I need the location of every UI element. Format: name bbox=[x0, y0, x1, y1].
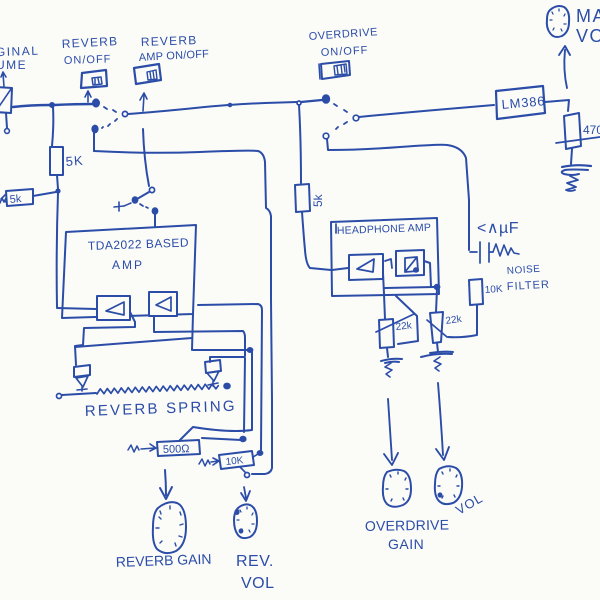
resistor 5K (vertical) bbox=[50, 147, 63, 175]
wire 500ohm column down bbox=[180, 352, 252, 440]
op-amp A (inside TDA box) bbox=[97, 296, 130, 320]
svg-text:GINAL: GINAL bbox=[0, 44, 40, 60]
switch SW3 common (open circle) bbox=[353, 115, 359, 121]
switch SW1 common (open circle) bbox=[122, 111, 127, 116]
wire SW2 to TDA amp top bbox=[154, 214, 156, 227]
node C junction circle bbox=[297, 101, 301, 105]
resistor 5K (overdrive input) bbox=[295, 184, 310, 212]
svg-text:REVERB GAIN: REVERB GAIN bbox=[116, 551, 212, 570]
switch box OVERDRIVE ON/OFF bbox=[321, 61, 350, 79]
ground (left 22K) bbox=[381, 359, 402, 363]
wire pot lower lead to jack bbox=[6, 113, 7, 128]
svg-text:ON/OFF: ON/OFF bbox=[64, 53, 112, 67]
arrow down to overdrive vol knob bbox=[436, 383, 449, 460]
wire LM386 output bbox=[545, 100, 569, 111]
wire 5K to node B bbox=[57, 175, 58, 189]
op-amp B (inside TDA box) bbox=[149, 292, 177, 316]
TDA2022 amp box bbox=[62, 225, 196, 318]
arrow down to overdrive gain knob bbox=[384, 399, 398, 465]
wire noise filter down to right 22K wiper bbox=[448, 305, 477, 337]
wire op-amp loop to left 22K wiper bbox=[396, 296, 418, 344]
resistor 10K noise filter bbox=[469, 279, 483, 305]
svg-text:470: 470 bbox=[583, 123, 600, 137]
svg-text:NOISE: NOISE bbox=[506, 264, 540, 277]
ground (right 22K) bbox=[421, 352, 453, 357]
reverb spring coil bbox=[97, 384, 219, 394]
svg-text:OVERDRIVE: OVERDRIVE bbox=[365, 517, 450, 534]
arrow up to reverb-amp switch bbox=[140, 93, 147, 111]
svg-text:REVERB: REVERB bbox=[141, 33, 198, 49]
wire to spring bbox=[62, 393, 96, 395]
wire SW3 lower contact sweep to noise filter line bbox=[327, 139, 469, 250]
switch SW1 pole contact (filled) bbox=[93, 99, 99, 106]
arrow up to MAIN VOL knob bbox=[559, 46, 570, 88]
knobs and labels bottom-left bbox=[116, 502, 275, 592]
wire SW1 common to node C bbox=[128, 102, 297, 114]
knob OVERDRIVE GAIN bbox=[383, 470, 411, 507]
wire node A to reverb switch pole bbox=[54, 104, 94, 105]
reverb spring left terminal bbox=[57, 394, 62, 399]
wire lower contact down bbox=[93, 133, 95, 151]
svg-text:REV.: REV. bbox=[236, 553, 274, 570]
switch SW3 dashed throws bbox=[334, 104, 347, 112]
svg-text:5k: 5k bbox=[311, 193, 325, 207]
junction dot on box right edge bbox=[435, 285, 440, 289]
wire pot to ground bbox=[571, 149, 572, 164]
wire junction down to right 22K bbox=[436, 289, 437, 312]
potentiometer ORIGINAL VOLUME (clipped by left edge) bbox=[0, 87, 12, 113]
arrow down to reverb gain knob bbox=[160, 470, 172, 499]
junction tiny dot on wire bbox=[229, 104, 232, 107]
svg-text:<∧µF: <∧µF bbox=[477, 220, 519, 237]
squiggle-arrow into 10K bbox=[199, 459, 210, 466]
wire op-amp D to box edge junction bbox=[424, 261, 431, 287]
potentiometer 500 ohm (reverb gain) bbox=[157, 440, 200, 456]
switch SW2 lower contact (filled) bbox=[153, 208, 158, 214]
wire 5K to node B bbox=[33, 192, 56, 196]
ground (main) bbox=[562, 165, 591, 167]
wiper arrow left 22K bbox=[376, 314, 414, 332]
switch SW1 lower contact (filled) bbox=[92, 126, 97, 133]
transducer pickup (right) bbox=[205, 360, 221, 373]
switch box REVERB AMP ON/OFF bbox=[134, 64, 161, 84]
svg-text:GAIN: GAIN bbox=[388, 536, 424, 552]
resistor 5K (horizontal, left edge) bbox=[6, 189, 33, 206]
potentiometer 10K (rev vol) bbox=[219, 451, 254, 469]
IC LM386 bbox=[496, 86, 545, 119]
node B junction bbox=[56, 189, 59, 192]
svg-text:REVERB: REVERB bbox=[61, 34, 118, 51]
svg-text:VOL: VOL bbox=[576, 26, 600, 46]
wire to ground bbox=[387, 348, 388, 357]
wire H1 from box right edge to 500ohm column bbox=[193, 349, 247, 351]
switch SW3 pole contact (filled) bbox=[323, 95, 329, 103]
switch SW1 dashed throws bbox=[104, 107, 116, 112]
node A junction bbox=[50, 103, 54, 107]
wire 5K down to headphone amp input bbox=[302, 212, 331, 270]
wire pickup up to H2 bbox=[210, 357, 244, 362]
svg-text:ON/OFF: ON/OFF bbox=[321, 45, 369, 59]
switch SW2 top contact (open) bbox=[149, 187, 154, 192]
headphone amp box bbox=[331, 218, 439, 296]
wire to ground bbox=[437, 343, 438, 352]
wire reverb-amp control down bbox=[143, 129, 149, 186]
wire node B down to TDA amp input bbox=[57, 193, 58, 307]
svg-text:FILTER: FILTER bbox=[507, 279, 551, 293]
wire node C down to 5K bbox=[299, 105, 301, 183]
knob REVERB GAIN bbox=[153, 502, 186, 553]
op-amp C bbox=[349, 254, 383, 280]
node open circle under 10K pot bbox=[245, 473, 250, 478]
transducer driver (left) bbox=[74, 365, 90, 377]
junction dot near 500 pot bbox=[240, 437, 245, 441]
svg-text:5K: 5K bbox=[65, 153, 84, 169]
knob OVERDRIVE VOL bbox=[435, 466, 462, 504]
wire op-amp A output loop to reverb driver bbox=[75, 312, 135, 365]
potentiometer 22K (overdrive vol) bbox=[430, 312, 443, 343]
svg-text:UME: UME bbox=[0, 58, 27, 72]
potentiometer 22K (overdrive gain) bbox=[379, 319, 394, 348]
node open terminal below pot bbox=[5, 129, 10, 134]
wire node C to SW3 pole bbox=[301, 100, 322, 102]
wire reverb-switch line down the middle bbox=[94, 151, 272, 474]
wire long diagonal to driver transducer bbox=[75, 338, 192, 347]
svg-text:VOL: VOL bbox=[241, 575, 275, 592]
wire left-edge lead with arrowhead into 5K bbox=[0, 194, 6, 203]
switch SW2 pole (filled) bbox=[133, 197, 138, 203]
wiper arrow right 22K bbox=[427, 320, 447, 337]
wire op-amp B output to pickup transducer column bbox=[154, 316, 245, 356]
knob REV VOL bbox=[234, 504, 257, 538]
switch SW2 dashed throw bbox=[140, 204, 148, 208]
wire pot wiper to node A bbox=[13, 105, 51, 107]
potentiometer 470 (main vol) bbox=[564, 113, 581, 149]
switch SW3 lower contact (open circle) bbox=[323, 133, 329, 139]
junction dot at 10K right bbox=[258, 451, 263, 455]
svg-text:10K: 10K bbox=[225, 455, 244, 468]
svg-text:AMP: AMP bbox=[112, 258, 144, 272]
squiggle-arrow into 500 bbox=[128, 445, 139, 452]
wire node A down to resistor 5K bbox=[52, 107, 53, 146]
svg-text:500Ω: 500Ω bbox=[163, 443, 190, 456]
arrow up to reverb switch bbox=[85, 91, 91, 102]
plus mark bbox=[114, 202, 124, 211]
arrow down to rev vol knob bbox=[241, 487, 250, 501]
wire SW3 common to LM386 bbox=[359, 105, 494, 117]
svg-text:10K: 10K bbox=[484, 284, 503, 296]
svg-text:5k: 5k bbox=[9, 193, 22, 206]
knob MAIN VOL bbox=[547, 6, 569, 37]
wire pickup column down to 500 pot bbox=[244, 358, 245, 432]
wire x262 column: amp right to 10K right bbox=[198, 304, 262, 450]
op-amp D bbox=[396, 250, 424, 276]
switch box REVERB ON/OFF bbox=[81, 70, 107, 88]
wire op-amp B / box right edge down bbox=[192, 314, 193, 350]
switch SW2 lever bbox=[137, 192, 149, 199]
junction dot on H1 bbox=[248, 348, 253, 352]
wire into amp op1 input bbox=[57, 308, 96, 309]
wire op-amp C output down to left 22K bbox=[383, 273, 385, 319]
svg-text:MA: MA bbox=[576, 6, 600, 26]
spring right terminal dot bbox=[224, 384, 230, 389]
